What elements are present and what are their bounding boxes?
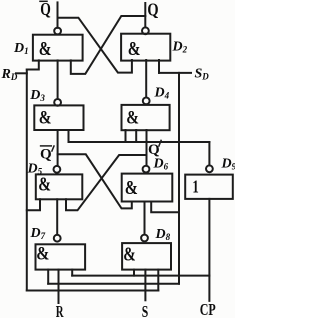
overbar of Q-bar label: [40, 0, 47, 2]
svg-text:S: S: [142, 303, 148, 318]
wire D4 output to D2 input: [145, 60, 147, 97]
output bubble of D2: [142, 27, 149, 34]
svg-text:&: &: [126, 107, 139, 128]
output bubble of D6: [143, 166, 150, 173]
svg-text:&: &: [125, 176, 138, 198]
output bubble of D4: [143, 98, 150, 105]
wire SD input row: [159, 72, 191, 74]
output bubble of D3: [54, 99, 61, 106]
wire SD stub into D2 input: [158, 60, 160, 73]
wire SD jog into D6 input: [151, 202, 179, 213]
gate D4 (NAND, slave steering right): [122, 105, 170, 130]
wire Q-bar-prime feedback to D6 input (cross coupling): [58, 154, 132, 208]
wire R input: [58, 270, 60, 303]
wire SD stub into D7: [47, 270, 49, 284]
svg-text:&: &: [123, 244, 135, 265]
wire Q-prime: D6 output up to D4 input: [146, 130, 148, 166]
wire Q feedback to D1 input (cross coupling): [71, 16, 146, 74]
svg-text:&: &: [36, 243, 49, 264]
svg-text:&: &: [39, 37, 52, 59]
wire RD input row: [16, 72, 27, 74]
gate D2 (NAND, slave latch right): [121, 34, 170, 61]
prime tick of Q-bar-prime label: [52, 146, 54, 151]
svg-text:CP: CP: [200, 301, 216, 318]
gate D7 (NAND, master input left): [36, 244, 86, 269]
gate D5 (NAND, master latch left): [36, 174, 83, 199]
wire CP-bar row from D9 output: [69, 141, 210, 143]
output bubble of D7: [54, 235, 61, 242]
svg-text:Q: Q: [148, 142, 160, 158]
svg-text:Q: Q: [147, 1, 158, 20]
gate D6 (NAND, master latch right): [122, 174, 173, 202]
prime tick of Q-prime label: [159, 140, 161, 146]
wire CP stub into D8: [133, 270, 135, 276]
wire Q output (D2 bubble up to top edge): [144, 3, 146, 27]
wire D3 output to D1 input: [57, 60, 59, 99]
gate D3 (NAND, slave steering left): [34, 105, 83, 130]
gate D1 (NAND, slave latch left): [33, 35, 83, 61]
wire D8 output to D6 input: [144, 202, 146, 235]
wire CP-bar stub into D4 input (right): [135, 130, 137, 142]
output bubble of D1: [54, 28, 61, 35]
wire Q-bar output (D1 bubble up to top edge): [57, 2, 59, 27]
svg-text:Q: Q: [40, 147, 52, 163]
svg-text:R: R: [56, 303, 64, 318]
wire D9 output riser: [208, 142, 210, 165]
wire CP row to D7 and D8: [72, 275, 209, 277]
output bubble of D8: [141, 235, 148, 242]
wire S input: [144, 270, 146, 301]
wire RD stub into D8: [157, 270, 159, 291]
svg-text:&: &: [128, 37, 141, 59]
svg-text:1: 1: [192, 177, 198, 197]
wire CP-bar stub into D4 input (left): [125, 130, 127, 142]
wire CP stub into D7: [71, 270, 73, 276]
wire RD jog into D1 input: [27, 60, 39, 69]
wire RD jog into D5 input: [27, 199, 40, 210]
wire CP input riser to D9: [208, 199, 210, 301]
overbar of Q-bar-prime label: [41, 145, 52, 147]
wire RD bottom row to D8 input: [27, 290, 159, 292]
wire Q-bar-prime: D5 output up to D3 input: [57, 130, 59, 166]
wire Q-prime feedback to D5 input (cross coupling): [66, 155, 147, 210]
wire RD rail (left vertical): [26, 70, 28, 291]
svg-text:&: &: [38, 173, 51, 195]
wire SD rail (right vertical): [178, 73, 180, 284]
wire CP-bar stub into D3 input: [68, 130, 70, 142]
svg-text:&: &: [39, 107, 52, 128]
output bubble of D5: [54, 166, 61, 173]
inverter D9 (CP inverter): [185, 175, 233, 199]
gate D8 (NAND, master input right): [122, 243, 171, 270]
svg-text:Q: Q: [40, 0, 51, 19]
wire D7 output to D5 input: [56, 199, 58, 234]
output bubble of D9: [206, 165, 213, 172]
wire SD bottom row to D7 input: [48, 283, 179, 285]
wire Q-bar feedback to D2 input (cross coupling): [58, 18, 132, 73]
